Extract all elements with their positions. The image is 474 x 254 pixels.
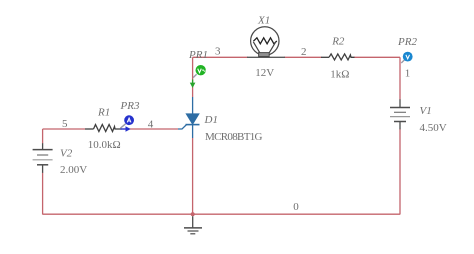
svg-text:10.0kΩ: 10.0kΩ — [88, 139, 121, 151]
svg-text:V1: V1 — [420, 105, 432, 117]
svg-text:V2: V2 — [60, 148, 73, 160]
svg-text:4.50V: 4.50V — [420, 122, 447, 134]
svg-text:MCR08BT1G: MCR08BT1G — [205, 131, 263, 143]
svg-text:D1: D1 — [204, 114, 218, 126]
svg-text:0: 0 — [293, 201, 299, 213]
svg-text:2: 2 — [301, 46, 307, 58]
svg-text:1: 1 — [405, 67, 411, 79]
svg-text:5: 5 — [62, 118, 68, 130]
svg-text:PR1: PR1 — [188, 49, 208, 61]
svg-text:1kΩ: 1kΩ — [330, 69, 349, 81]
svg-text:R1: R1 — [97, 107, 110, 119]
svg-text:3: 3 — [215, 46, 221, 58]
svg-text:4: 4 — [148, 119, 154, 131]
svg-text:12V: 12V — [255, 67, 274, 79]
svg-text:PR3: PR3 — [120, 100, 140, 112]
svg-text:R2: R2 — [331, 36, 345, 48]
svg-text:PR2: PR2 — [397, 36, 417, 48]
svg-text:2.00V: 2.00V — [60, 164, 87, 176]
svg-text:X1: X1 — [257, 15, 270, 27]
